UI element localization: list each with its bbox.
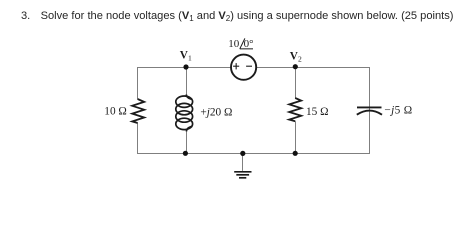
wire ground stem [242,154,244,171]
node dot bottom inductor [183,151,188,156]
ground bar 2 [236,174,249,176]
problem statement text [41,11,454,22]
wire 15-ohm branch upper [295,68,297,99]
wire left branch lower [137,123,139,154]
wire inductor branch lower [186,131,188,154]
voltage source U1 circle [231,55,256,80]
svg-text:10 Ω: 10 Ω [104,105,127,117]
svg-text:10: 10 [228,38,240,50]
ground bar 3 [239,177,246,179]
label -j5 ohm [384,105,412,117]
capacitor -j5 ohm bottom curved plate [357,111,382,115]
label 10 ohm [104,105,127,117]
wire top rail left segment (left corner to source) [137,67,231,69]
ground bar 1 [234,171,251,173]
label 10 angle 0 deg [228,38,253,50]
node V2 dot [293,64,298,69]
wire inductor branch upper [186,68,188,95]
label 15 ohm [306,106,329,118]
problem statement number [21,11,30,22]
label V1 [180,50,192,63]
svg-text:V1: V1 [180,50,192,63]
svg-text:0°: 0° [244,38,254,50]
minus terminal [246,65,252,67]
plus terminal [233,63,239,69]
angle slash of source label [240,38,245,48]
node V1 dot [183,64,188,69]
svg-text:−j5 Ω: −j5 Ω [384,105,412,117]
wire 15-ohm branch lower [295,121,297,154]
svg-text:+j20 Ω: +j20 Ω [200,107,232,119]
wire right branch (through capacitor) [369,68,371,154]
label V2 [290,51,302,64]
resistor 15 ohm [289,98,301,121]
resistor 10 ohm [132,99,144,123]
wire top rail right segment (source to right corner) [256,67,370,69]
capacitor -j5 ohm top plate [357,106,382,108]
svg-text:15 Ω: 15 Ω [306,106,329,118]
inductor +j20 ohm [176,95,193,132]
node dot bottom 15-ohm [293,151,298,156]
node dot bottom ground [240,151,245,156]
wire bottom rail [137,153,370,155]
svg-text:V2: V2 [290,51,302,64]
label +j20 ohm [200,107,232,119]
angle underline of source label [240,48,253,50]
wire left branch upper [137,67,139,99]
